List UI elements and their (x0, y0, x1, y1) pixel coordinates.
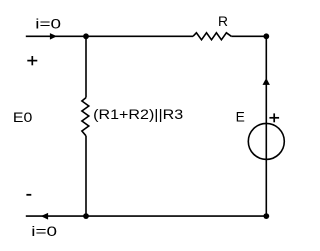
wire bottom (node D to left terminal) (26, 215, 266, 217)
label + (source polarity) (269, 113, 279, 122)
wire top-mid (node A to resistor R) (86, 35, 193, 37)
arrow EMF direction (points up) (263, 78, 270, 85)
resistor (R1+R2)||R3 (82, 98, 89, 136)
label + (top left polarity) (27, 56, 37, 65)
node D junction dot (263, 213, 269, 219)
wire right rail (node B through source E to node D) (265, 36, 267, 216)
wire left rail upper (node A to resistor) (85, 36, 87, 97)
svg-text:i=0: i=0 (35, 16, 61, 32)
svg-text:R: R (218, 13, 228, 29)
voltage source E circle (248, 123, 284, 159)
wire top-left (from left terminal to node A) (26, 35, 86, 37)
svg-text:E: E (236, 109, 245, 125)
label - (bottom left polarity) (26, 194, 31, 196)
node C junction dot (83, 213, 89, 219)
svg-text:i=0: i=0 (31, 223, 57, 239)
node B junction dot (263, 33, 269, 39)
wire left rail lower (resistor to node C) (85, 136, 87, 216)
svg-text:(R1+R2)||R3: (R1+R2)||R3 (93, 106, 183, 122)
arrow i=0 top (points right) (50, 33, 57, 40)
node A junction dot (83, 33, 89, 39)
resistor R (193, 33, 231, 40)
arrow i=0 bottom (points left) (41, 213, 48, 220)
wire top-right (resistor R to node B) (231, 35, 266, 37)
svg-text:E0: E0 (13, 109, 33, 125)
